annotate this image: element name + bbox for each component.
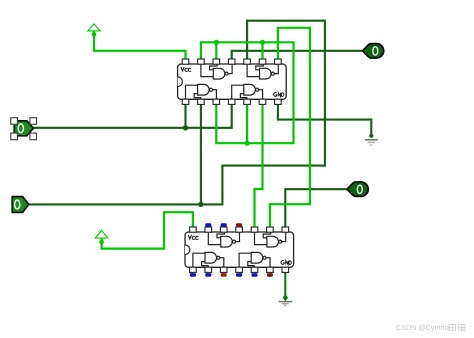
output terminal OUT2 (logic state 0) [347,182,368,196]
selection handles around IN1 [11,118,37,140]
ground symbol (bottom) [279,302,293,306]
node junction pin9 [260,40,265,45]
watermark [396,323,465,332]
wire net IN1 (input 2 terminal to U1 pins 1,4) [33,104,231,127]
wire net OUT1 (U1 pin11 to output terminal) [232,51,363,59]
wire net OUT2 (U2 pin8 to output terminal) [285,189,347,227]
node power1 dot [92,32,97,37]
ground symbol (right) [365,140,378,145]
wire net VCC1 (power arrow to U1 pin14) [94,31,186,59]
wire net GND1 (U1 pin7 to ground) [278,104,371,137]
power symbol (lower left arrow) [95,230,107,238]
node ground1 dot [369,134,373,138]
node power2 dot [99,240,104,245]
node junction pin1/IN1 [183,125,188,130]
U2 pin state markers (bottom: pins 1,2,4,5 blue, 3,6 red) [190,273,273,277]
wire net B (U1 pins 13,12,9,3,5) [201,42,294,143]
wire net D (U1 pin6 to U2 pin10) [255,104,263,227]
wire net IN2 (terminal to U1 pin2 and U1 pin10) [29,21,325,205]
node junction pin2/IN2 [198,202,203,207]
input terminal IN2 (logic state 0) [12,197,29,213]
node junction pin5 [245,141,250,146]
input terminal IN1 (selected, logic state 0) [14,121,33,136]
wire net C (U1 pin8 to U2 pin9) [270,28,310,227]
wire net GND2 (U2 pin7 to ground) [284,273,286,298]
power symbol (top left arrow) [88,24,100,31]
IC U1 (7400 quad NAND) [178,59,287,104]
output terminal OUT1 (logic state 0) [363,44,384,58]
U2 pin state markers (top: pins 13,12 blue, 11 red) [205,223,242,227]
IC U2 (7400 quad NAND) [185,227,294,272]
node junction pin12 [214,40,219,45]
svg-text:CSDN @Cynthia: CSDN @Cynthia [396,323,450,332]
node ground2 dot [283,294,288,301]
wire net VCC2 (power arrow to U2 pin14) [102,212,193,248]
